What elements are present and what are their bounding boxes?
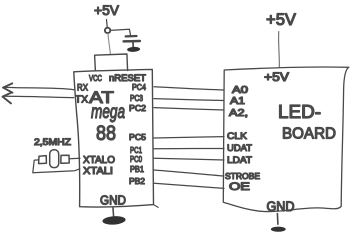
ground (board) <box>271 227 286 232</box>
svg-text:XTALI: XTALI <box>83 166 113 177</box>
board name LED- <box>278 102 321 122</box>
pin label nRESET <box>109 73 147 83</box>
pin label PC0 <box>130 154 142 164</box>
svg-text:PC2: PC2 <box>129 103 146 113</box>
wire RX to left <box>6 87 74 89</box>
pin label RX <box>77 83 89 94</box>
svg-text:PC4: PC4 <box>132 82 146 92</box>
label A0 <box>232 85 249 96</box>
wire +5V label to junction <box>106 20 109 28</box>
wire PC1 to UDAT <box>154 148 224 150</box>
+5V supply label (right) <box>266 11 296 29</box>
label STROBE <box>225 171 260 181</box>
ground (U1) <box>102 215 126 225</box>
wire PC3 to A1 <box>154 99 224 101</box>
svg-text:STROBE: STROBE <box>225 171 260 181</box>
arrowhead RX <box>3 83 13 92</box>
wire PC4 to A0 <box>154 87 224 90</box>
capacitor C1 stem <box>132 42 134 47</box>
IC name mega <box>91 102 125 123</box>
LED board outline <box>223 67 348 212</box>
pin label PC3 <box>130 93 143 103</box>
pin label VCC <box>89 73 102 83</box>
svg-text:GND: GND <box>267 199 295 214</box>
svg-text:+5V: +5V <box>94 2 120 18</box>
svg-text:LED-: LED- <box>278 102 321 122</box>
wire PC0 to LDAT <box>154 158 224 160</box>
wire junction down to VCC bump <box>108 34 110 55</box>
wire TX to left <box>5 96 74 97</box>
pin label PC4 <box>132 82 146 92</box>
svg-text:PC5: PC5 <box>129 132 146 142</box>
wire crystal left terminal loop to XTALI <box>33 160 80 173</box>
IC name AT <box>89 88 114 107</box>
svg-text:mega: mega <box>91 102 125 123</box>
label CLK <box>227 131 248 142</box>
svg-text:A1: A1 <box>230 96 246 107</box>
wire junction to capacitor C1 <box>111 29 131 35</box>
svg-text:CLK: CLK <box>227 131 248 142</box>
pin label PB2 <box>129 176 145 186</box>
pin label PC5 <box>129 132 146 142</box>
crystal X1 label 2,5MHZ <box>34 137 72 147</box>
label GND (board) <box>267 199 295 214</box>
junction dot <box>105 28 110 33</box>
label +5V (inside board) <box>264 70 289 84</box>
svg-text:88: 88 <box>96 122 116 145</box>
wire PB1 to STROBE <box>154 170 224 176</box>
svg-text:PC0: PC0 <box>130 154 142 164</box>
VCC pin bump on top of U1 <box>95 54 128 71</box>
svg-text:UDAT: UDAT <box>227 143 252 154</box>
ground (capacitor) <box>127 47 140 53</box>
crystal X1 right terminal <box>61 155 69 163</box>
IC name 88 <box>96 122 116 145</box>
chip bottom-right corner overshoot <box>153 204 158 207</box>
+5V supply label (left) <box>94 2 120 18</box>
label OE <box>229 181 250 193</box>
svg-text:LDAT: LDAT <box>227 155 252 166</box>
capacitor C1 top plate <box>126 35 137 38</box>
pin label PB1 <box>130 164 144 174</box>
wire +5V to LED board <box>278 32 281 68</box>
wire PC5 to CLK <box>154 137 224 138</box>
svg-text:2,5MHZ: 2,5MHZ <box>34 137 72 147</box>
svg-text:A2,: A2, <box>229 108 248 119</box>
pin label GND (U1) <box>100 194 126 208</box>
svg-text:PC3: PC3 <box>130 93 143 103</box>
arrowhead TX <box>3 93 12 104</box>
svg-text:+5V: +5V <box>264 70 289 84</box>
ground stub (U1) <box>112 208 115 217</box>
svg-text:PB2: PB2 <box>129 176 145 186</box>
svg-text:VCC: VCC <box>89 73 102 83</box>
pin label TX <box>75 95 88 106</box>
svg-text:+5V: +5V <box>266 11 296 29</box>
pin label PC2 <box>129 103 146 113</box>
svg-text:BOARD: BOARD <box>282 126 336 143</box>
capacitor C1 bottom plate <box>124 40 140 43</box>
IC U1 ATmega88 outline <box>74 69 154 207</box>
ground stub (board) <box>276 214 279 225</box>
label A2 <box>229 108 248 119</box>
board name BOARD <box>282 126 336 143</box>
svg-text:TX: TX <box>75 95 88 106</box>
crystal X1 body <box>50 150 59 168</box>
label LDAT <box>227 155 252 166</box>
svg-text:XTALO: XTALO <box>83 155 115 166</box>
pin label PC1 <box>130 145 142 155</box>
wire PB2 to OE <box>154 183 224 188</box>
label A1 <box>230 96 246 107</box>
svg-text:RX: RX <box>77 83 89 94</box>
crystal X1 left terminal <box>39 156 47 164</box>
label UDAT <box>227 143 252 154</box>
wire crystal right terminal to XTALO <box>69 157 80 160</box>
wire PC2 to A2 <box>154 108 224 110</box>
svg-text:GND: GND <box>100 194 126 208</box>
svg-text:PB1: PB1 <box>130 164 144 174</box>
svg-text:OE: OE <box>229 181 250 193</box>
pin label XTALO <box>83 155 115 166</box>
svg-text:A0: A0 <box>232 85 249 96</box>
pin label XTALI <box>83 166 113 177</box>
